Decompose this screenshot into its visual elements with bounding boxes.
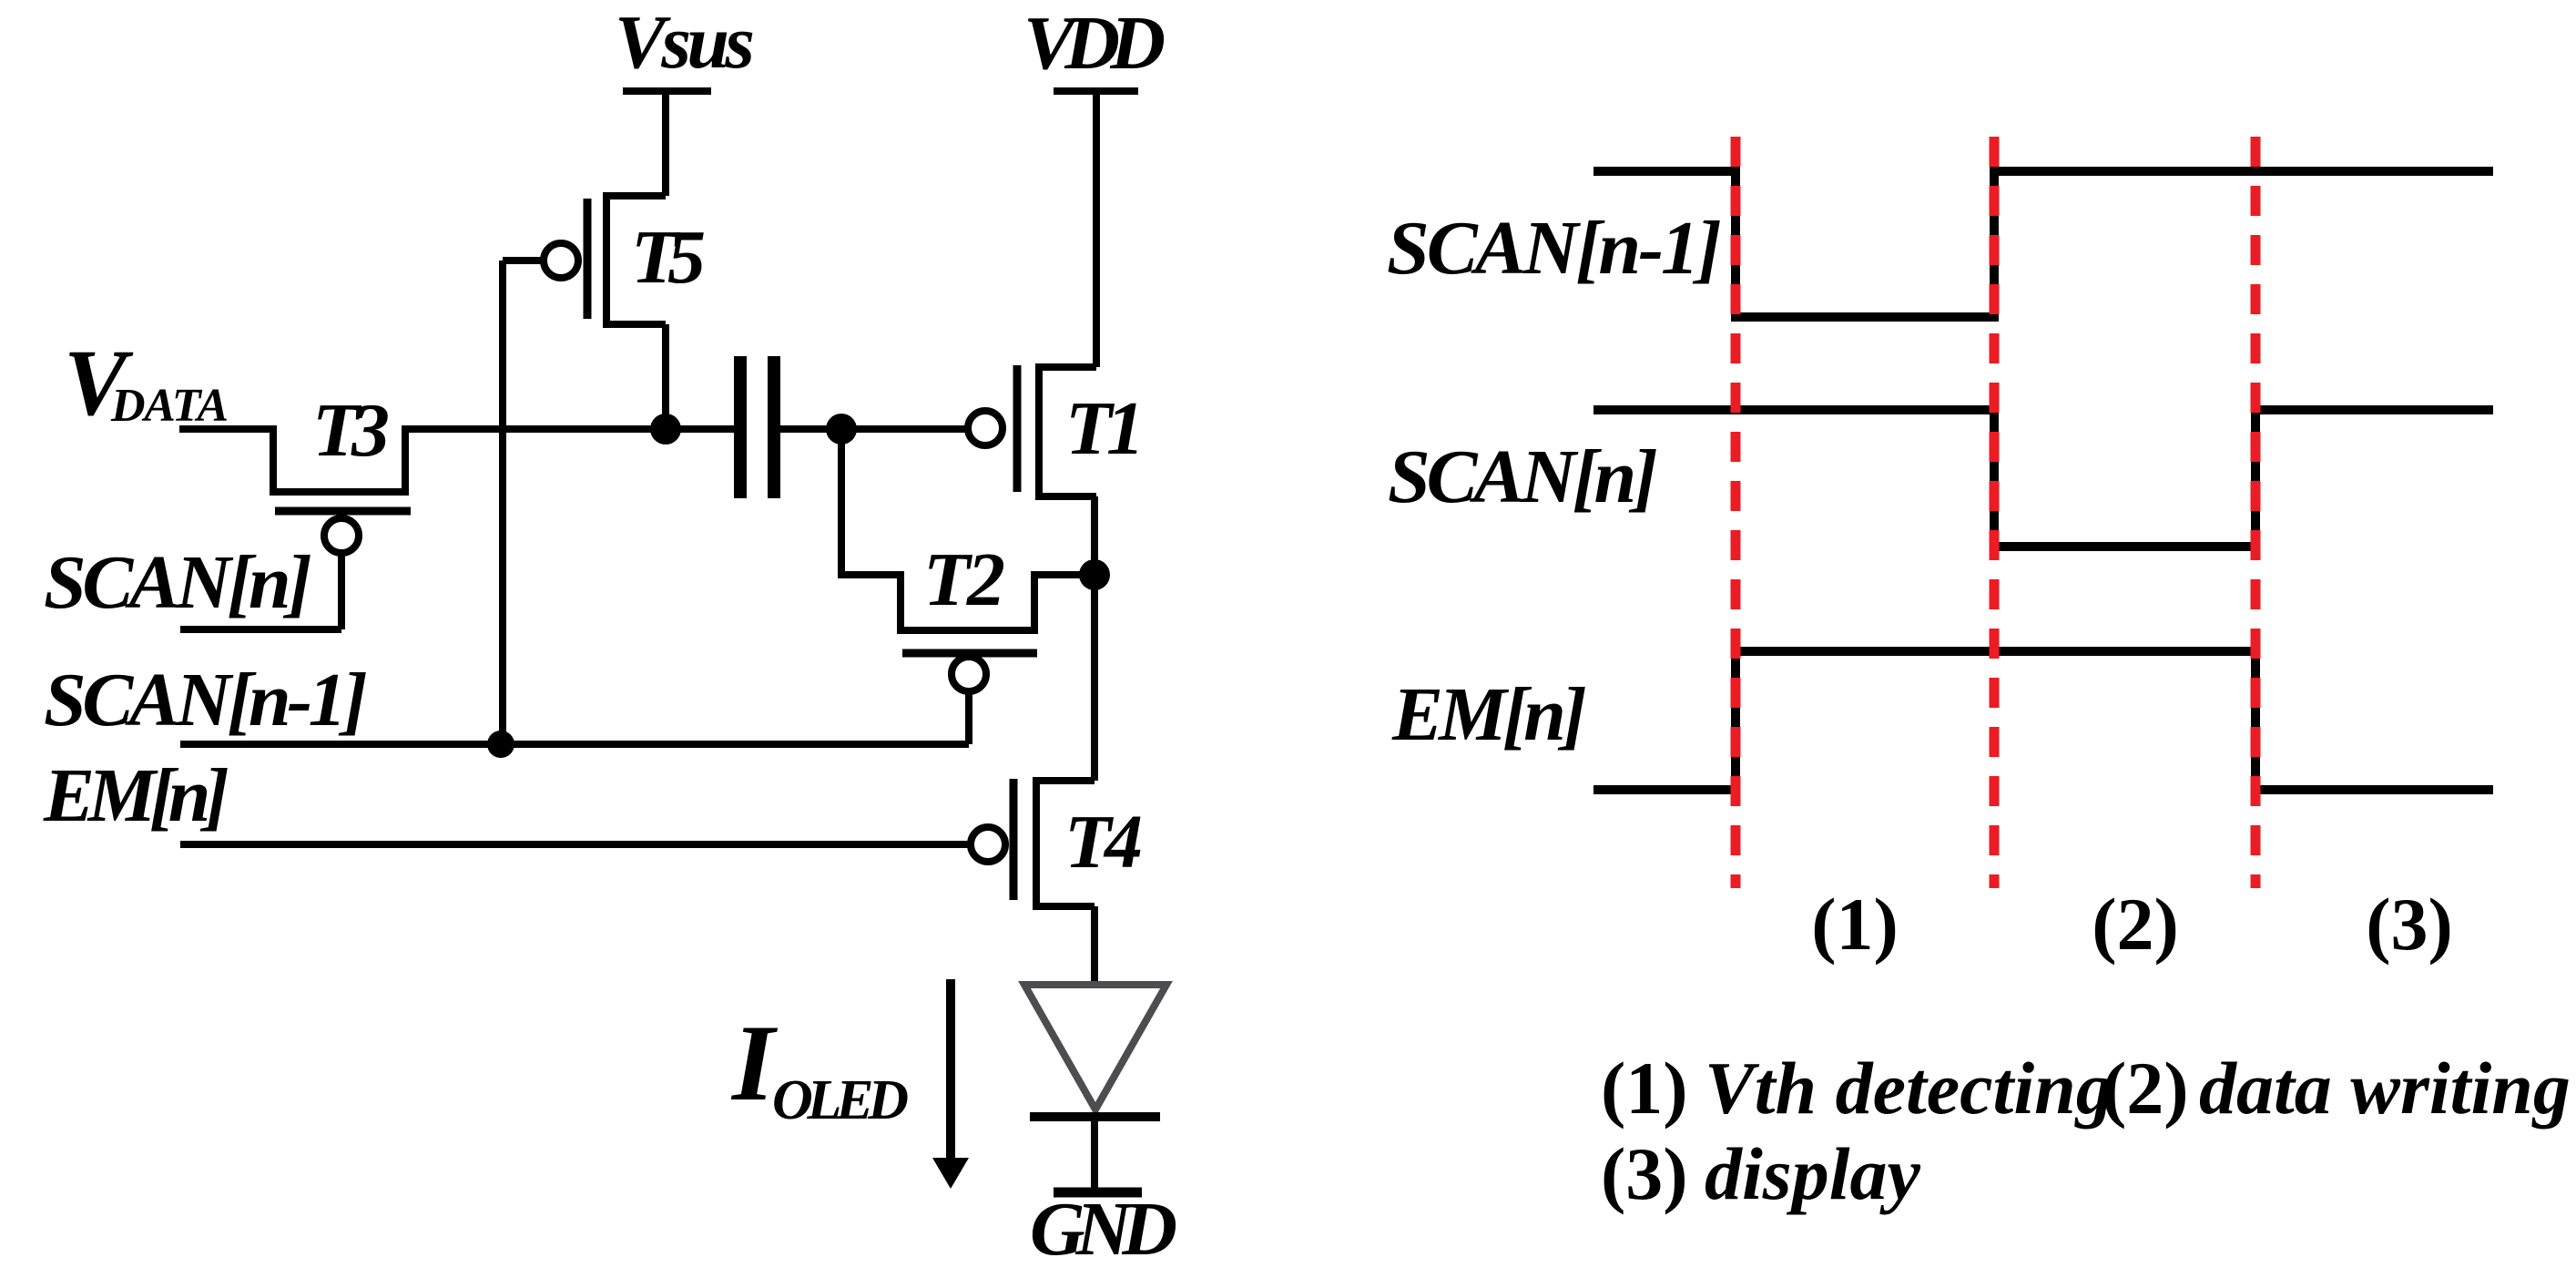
waveform SCAN[n-1] [1593, 171, 2493, 317]
transistor T2 [841, 429, 1095, 744]
transistor T4 [971, 779, 1095, 906]
wire T4 source to OLED [1091, 906, 1098, 985]
power rail Vsus bar [623, 87, 711, 95]
label IOLED [730, 1002, 909, 1131]
power rail VDD bar [1054, 87, 1138, 95]
svg-text:VDD: VDD [1023, 1, 1166, 86]
svg-text:OLED: OLED [772, 1069, 909, 1131]
OLED cathode bar [1030, 1112, 1160, 1121]
wire OLED to GND [1091, 1117, 1098, 1188]
phase boundary dashed line 3 [2251, 137, 2261, 888]
phase boundary dashed line 2 [1990, 137, 2000, 888]
svg-text:(2): (2) [2102, 1047, 2189, 1130]
OLED diode anode triangle [1024, 985, 1166, 1109]
wire T1 source down to T4 [1091, 496, 1098, 781]
label T1 [1065, 386, 1145, 471]
waveform EM[n] [1593, 651, 2493, 790]
svg-text:(3): (3) [1601, 1132, 1688, 1215]
ground bar [1054, 1188, 1142, 1198]
label GND [1030, 1187, 1177, 1272]
waveform SCAN[n] [1593, 410, 2493, 547]
wire EM[n] [180, 841, 969, 848]
net EM[n] label [43, 753, 229, 838]
svg-text:data writing: data writing [2199, 1047, 2571, 1130]
transistor T5 [503, 196, 666, 324]
svg-text:SCAN[n-1]: SCAN[n-1] [1387, 206, 1722, 291]
caption line 1 [1601, 1047, 2571, 1130]
transistor T1 [968, 365, 1096, 496]
net SCAN[n-1] label [44, 658, 368, 742]
net SCAN[n] label [44, 540, 312, 625]
phase label (3) [2366, 883, 2453, 966]
node drain junction dot [1079, 559, 1110, 590]
timing label EM[n] [1391, 672, 1587, 757]
timing label SCAN[n-1] [1387, 206, 1722, 291]
phase boundary dashed line 1 [1731, 137, 1741, 888]
svg-text:T2: T2 [923, 537, 1005, 622]
svg-text:(1): (1) [1601, 1047, 1688, 1130]
svg-text:GND: GND [1030, 1187, 1177, 1272]
net Vsus label [615, 0, 755, 85]
label T3 [312, 388, 390, 473]
net VDATA label [64, 331, 229, 435]
wire VDD to T1 drain [1093, 91, 1100, 367]
svg-text:DATA: DATA [110, 380, 229, 432]
label T2 [923, 537, 1005, 622]
wire VDATA to T3 [179, 425, 273, 433]
transistor T3 [270, 425, 411, 629]
node gate junction dot [826, 414, 857, 445]
svg-text:SCAN[n]: SCAN[n] [1388, 435, 1658, 519]
capacitor C1 [740, 356, 774, 498]
caption line 2 [1601, 1132, 1920, 1215]
wire T5 gate down to SCAN[n-1] [499, 261, 506, 744]
current arrow IOLED [932, 979, 969, 1189]
net VDD label [1023, 1, 1166, 86]
wire T3 to capacitor [405, 425, 734, 433]
svg-text:T4: T4 [1064, 800, 1143, 884]
svg-text:EM[n]: EM[n] [43, 753, 229, 838]
svg-text:SCAN[n]: SCAN[n] [44, 540, 312, 625]
svg-text:SCAN[n-1]: SCAN[n-1] [44, 658, 368, 742]
wire capacitor to T1 gate [780, 425, 967, 433]
svg-text:EM[n]: EM[n] [1391, 672, 1587, 757]
label T4 [1064, 800, 1143, 884]
svg-text:T3: T3 [312, 388, 390, 473]
wire T5 source down to data node [662, 324, 669, 429]
svg-text:(1): (1) [1811, 883, 1899, 966]
svg-text:T5: T5 [631, 215, 706, 300]
node data junction dot [650, 414, 681, 445]
wire Vsus to T5 drain [662, 91, 669, 196]
phase label (1) [1811, 883, 1899, 966]
wire SCAN[n] [180, 626, 341, 633]
node SCAN junction dot [487, 731, 514, 758]
wire SCAN[n-1] [180, 741, 969, 748]
svg-text:(3): (3) [2366, 883, 2453, 966]
svg-text:Vth detecting: Vth detecting [1705, 1047, 2113, 1130]
svg-text:T1: T1 [1065, 386, 1145, 471]
label T5 [631, 215, 706, 300]
timing label SCAN[n] [1388, 435, 1658, 519]
svg-text:display: display [1705, 1132, 1920, 1215]
phase label (2) [2092, 883, 2179, 966]
svg-text:Vsus: Vsus [615, 0, 755, 85]
svg-text:(2): (2) [2092, 883, 2179, 966]
